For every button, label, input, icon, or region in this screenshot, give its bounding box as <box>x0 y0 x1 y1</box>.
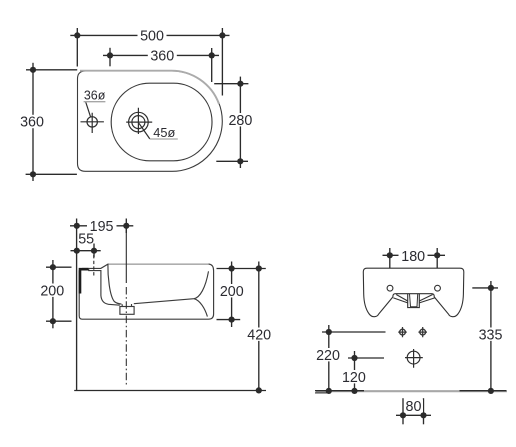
dim 120 vertical line <box>354 351 356 391</box>
rear body outline <box>363 268 464 317</box>
side drain stubs <box>122 304 131 307</box>
side drain trap rectangle <box>120 307 134 315</box>
drain circle outer 45ø <box>129 112 149 132</box>
dim 55 line <box>71 250 101 252</box>
45ø leader line <box>139 123 150 139</box>
rear small supply hole left <box>398 327 407 337</box>
svg-text:36ø: 36ø <box>84 88 106 103</box>
side faucet hidden dashed line <box>93 255 95 276</box>
svg-text:200: 200 <box>40 283 64 299</box>
side basin bottom line to rear <box>134 299 194 304</box>
side rear trumpet upper curve <box>194 271 209 298</box>
36ø leader line <box>86 102 91 117</box>
label 200 right <box>218 284 247 297</box>
svg-text:55: 55 <box>78 232 94 248</box>
side inner ledge and front basin wall <box>89 269 120 306</box>
dim 180 line <box>383 254 446 256</box>
dim 180 right dot and extension <box>434 252 440 258</box>
dim 195 line <box>70 225 133 227</box>
dim 120 top dot and tick <box>351 355 357 361</box>
label 500 <box>138 29 167 42</box>
dim 420 bottom dot <box>256 387 262 393</box>
dim 500 line <box>70 34 229 36</box>
dim 220 top dot and tick <box>326 329 332 335</box>
svg-text:360: 360 <box>20 115 44 131</box>
plan body top rim highlight (gray) <box>80 71 219 104</box>
dim 335 top dot and tick <box>488 285 494 291</box>
svg-text:200: 200 <box>220 284 244 300</box>
rear spout upper-right slope <box>419 295 432 302</box>
rear spout lower-left slope <box>393 298 407 303</box>
svg-text:120: 120 <box>342 370 366 386</box>
label 200 left <box>38 284 67 297</box>
label 220 <box>314 348 343 361</box>
plan body outline <box>78 71 223 171</box>
rear right mounting hole <box>435 285 441 291</box>
36ø underline (gray) <box>84 101 106 103</box>
dim 360 left bottom dot and tick <box>30 171 36 177</box>
drain crosshair <box>126 108 152 134</box>
dim 200 left bottom dot and tick <box>50 318 56 324</box>
dim 220 vertical line <box>328 325 330 391</box>
dim 280 bottom dot and tick <box>237 158 243 164</box>
side rim gray top line <box>109 263 209 265</box>
dim 420 top dot <box>256 265 262 271</box>
dim 200 right top dot and shared tick <box>229 265 235 271</box>
dim 500 right dot and extension <box>219 32 225 38</box>
svg-text:45ø: 45ø <box>153 125 175 140</box>
dim 220 bottom dot <box>326 388 332 394</box>
dim 120 bottom dot <box>351 388 357 394</box>
rear spout upper-left slope <box>396 295 408 302</box>
svg-text:420: 420 <box>247 327 271 343</box>
45ø underline (gray) <box>150 138 178 140</box>
svg-text:180: 180 <box>401 249 425 265</box>
label 360 top <box>148 49 177 62</box>
faucet hole crosshair <box>81 113 104 133</box>
dim 200 right bottom dot and tick <box>229 317 235 323</box>
dim 195 right dot and tick <box>123 223 129 229</box>
dim 80 right dot and extension <box>420 412 426 418</box>
dim 360 left vertical line <box>32 63 34 181</box>
svg-text:80: 80 <box>406 399 422 415</box>
rear floor black tick right <box>460 390 507 392</box>
dim 335 vertical line <box>490 281 492 391</box>
rear small supply hole right <box>418 327 427 337</box>
dim 500 left dot and extension <box>74 32 80 38</box>
dim 360 left top dot and tick <box>30 67 36 73</box>
dim 80 line <box>396 414 431 416</box>
label 80 <box>404 400 423 413</box>
svg-text:335: 335 <box>479 327 503 343</box>
side floor baseline <box>74 390 266 392</box>
dim 200 left top dot and tick <box>50 264 56 270</box>
dim 280 top dot and tick <box>237 81 243 87</box>
dim 420 vertical line <box>258 262 260 391</box>
side thick front-top edge <box>80 269 89 293</box>
svg-text:500: 500 <box>140 28 164 44</box>
rear large drain hole crosshair circle <box>407 351 420 364</box>
rear spout inner funnel <box>410 294 418 307</box>
dim 55 left dot <box>74 248 80 254</box>
rear spout outer box <box>408 294 420 308</box>
label 420 <box>245 328 274 341</box>
rear floor gray line <box>316 390 507 392</box>
side body outline <box>79 264 213 319</box>
dim 280 vertical line <box>239 77 241 168</box>
rear floor black tick left <box>315 390 364 392</box>
dim 200 left vertical line <box>52 260 54 328</box>
faucet hole circle 36ø <box>87 117 97 127</box>
side center extension solid segment <box>125 229 127 283</box>
rear floor double mark <box>315 392 327 394</box>
dim 360 top right dot <box>209 52 215 58</box>
dim 335 bottom dot <box>488 388 494 394</box>
svg-text:220: 220 <box>316 348 340 364</box>
label 120 <box>340 370 369 383</box>
dim 360 top left dot <box>107 52 113 58</box>
dim 180 left dot and extension <box>387 252 393 258</box>
rear spout lower-right slope <box>419 298 434 303</box>
label 360 left <box>18 115 47 128</box>
side left long extension line <box>76 219 78 391</box>
dim 200 right vertical line <box>231 262 233 328</box>
side basin inner surface line <box>108 264 122 304</box>
svg-text:280: 280 <box>228 113 252 129</box>
plan basin oval <box>111 83 212 161</box>
drain circle inner <box>132 116 145 129</box>
label 335 <box>476 328 506 341</box>
side center dash-dot line <box>125 287 127 386</box>
label 180 <box>399 249 428 262</box>
dim 80 left dot and extension <box>400 412 406 418</box>
rear left mounting hole <box>387 285 393 291</box>
label 280 <box>226 113 255 126</box>
dim 195 left dot <box>74 223 80 229</box>
dim 360 top line <box>103 54 219 56</box>
side rear trumpet lower curve <box>194 299 207 317</box>
dim 55 right dot and tick <box>91 248 97 254</box>
svg-text:360: 360 <box>150 48 174 64</box>
label 195 <box>87 219 117 232</box>
